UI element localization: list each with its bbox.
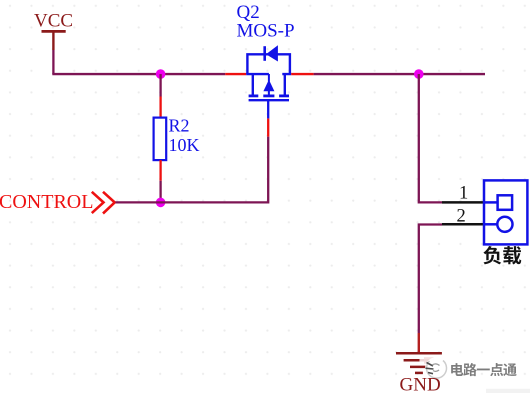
svg-text:1: 1 — [459, 184, 468, 204]
pin GND (red) — [418, 333, 420, 352]
pin 1 lead — [442, 201, 484, 204]
pin Q2 drain (red) — [291, 73, 313, 75]
wire VCC vertical — [52, 50, 54, 74]
connector J1 body — [484, 180, 527, 244]
power symbol VCC — [34, 11, 73, 50]
wire junction to R2 — [159, 74, 161, 96]
svg-text:CONTROL: CONTROL — [0, 191, 93, 213]
pin Q2 source (red) — [225, 73, 246, 75]
svg-text:GND: GND — [400, 375, 441, 393]
resistor R2 — [154, 116, 200, 161]
svg-text:MOS-P: MOS-P — [237, 21, 295, 42]
pin R2 top (red) — [159, 97, 161, 118]
svg-text:VCC: VCC — [34, 11, 73, 32]
wire top rail right — [314, 73, 485, 75]
svg-text:10K: 10K — [169, 135, 200, 155]
pin Q2 gate red segment — [267, 118, 269, 136]
junction node C — [414, 69, 424, 79]
pin Q2 gate blue segment — [267, 101, 269, 118]
watermark text 电路一点通 — [451, 363, 463, 376]
wire drain down to pin1 — [419, 74, 442, 202]
junction node B — [156, 198, 166, 208]
transistor Q2 MOS-P — [246, 45, 291, 100]
wire pin2 to ground run — [419, 225, 442, 334]
svg-text:R2: R2 — [169, 116, 190, 136]
pin R2 bottom (red) — [159, 160, 161, 181]
svg-text:2: 2 — [457, 207, 466, 227]
junction node A — [156, 69, 166, 79]
label connector 负载 — [483, 246, 501, 264]
watermark logo — [420, 356, 448, 380]
wire top rail left — [52, 73, 225, 75]
ground symbol — [396, 353, 442, 373]
wire control rail — [116, 137, 269, 203]
pin 2 lead — [442, 223, 484, 226]
wire R2 to control rail — [159, 181, 161, 203]
port CONTROL chevrons — [92, 192, 115, 214]
bottom band — [486, 389, 530, 393]
